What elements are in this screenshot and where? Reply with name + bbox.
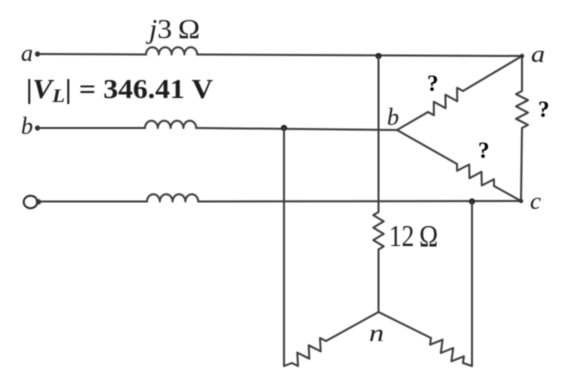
middle vertical wire upper (phase a to 12 ohm) — [378, 56, 380, 212]
resistor b-a (?) — [428, 88, 463, 115]
inductor j3 ohm — [146, 47, 197, 54]
right vertical wire (phase c drop) — [471, 202, 473, 367]
inductor b-line — [145, 121, 196, 128]
svg-text:b: b — [21, 114, 33, 140]
junction c-line / right vertical — [469, 198, 475, 204]
wire b-line left — [39, 127, 145, 129]
resistor 12 ohm — [373, 212, 383, 250]
wire to left vertical bottom — [284, 363, 292, 366]
resistor b-c (?) — [457, 164, 494, 186]
svg-text:a: a — [21, 41, 33, 67]
wire c-line left — [39, 201, 147, 203]
wire resistor to node a — [463, 56, 522, 91]
svg-text:|VL| = 346.41 V: |VL| = 346.41 V — [26, 74, 214, 107]
svg-text:n: n — [369, 321, 384, 347]
svg-text:?: ? — [538, 97, 550, 122]
node junction on a-line — [375, 53, 381, 59]
svg-text:b: b — [387, 105, 399, 131]
resistor bottom-left — [292, 338, 326, 366]
resistor bottom-right — [430, 338, 464, 363]
node c corner dot — [519, 199, 523, 203]
wire resistor to node c — [521, 128, 522, 201]
wire b-line right — [196, 128, 397, 130]
svg-text:c: c — [530, 189, 541, 215]
inductor c-line — [147, 194, 198, 201]
wire c-line right — [198, 200, 521, 203]
svg-text:?: ? — [478, 138, 490, 163]
delta side b-a wire — [397, 112, 428, 130]
wye branch to bottom-right: wire from n — [379, 312, 432, 338]
wire a-line left — [39, 53, 146, 56]
delta side a-c wire — [521, 56, 523, 91]
svg-text:j3 Ω: j3 Ω — [146, 14, 200, 44]
delta side b-c wire — [397, 130, 457, 164]
svg-text:?: ? — [427, 71, 439, 96]
terminal a — [21, 41, 40, 67]
wire to right vertical bottom — [463, 363, 472, 366]
wire a-line right — [197, 55, 522, 57]
wire resistor to node c (bottom) — [494, 186, 521, 201]
wye branch to bottom-left: wire from n — [326, 312, 379, 341]
junction b-line / left vertical — [281, 125, 287, 131]
terminal c — [24, 196, 42, 208]
middle vertical wire lower — [378, 250, 380, 313]
svg-text:a: a — [531, 42, 545, 68]
svg-text:12 Ω: 12 Ω — [389, 218, 438, 253]
terminal b — [21, 114, 40, 140]
node a corner dot — [520, 54, 524, 58]
left vertical wire (phase b drop) — [283, 128, 285, 366]
resistor a-c (?) — [516, 91, 528, 128]
